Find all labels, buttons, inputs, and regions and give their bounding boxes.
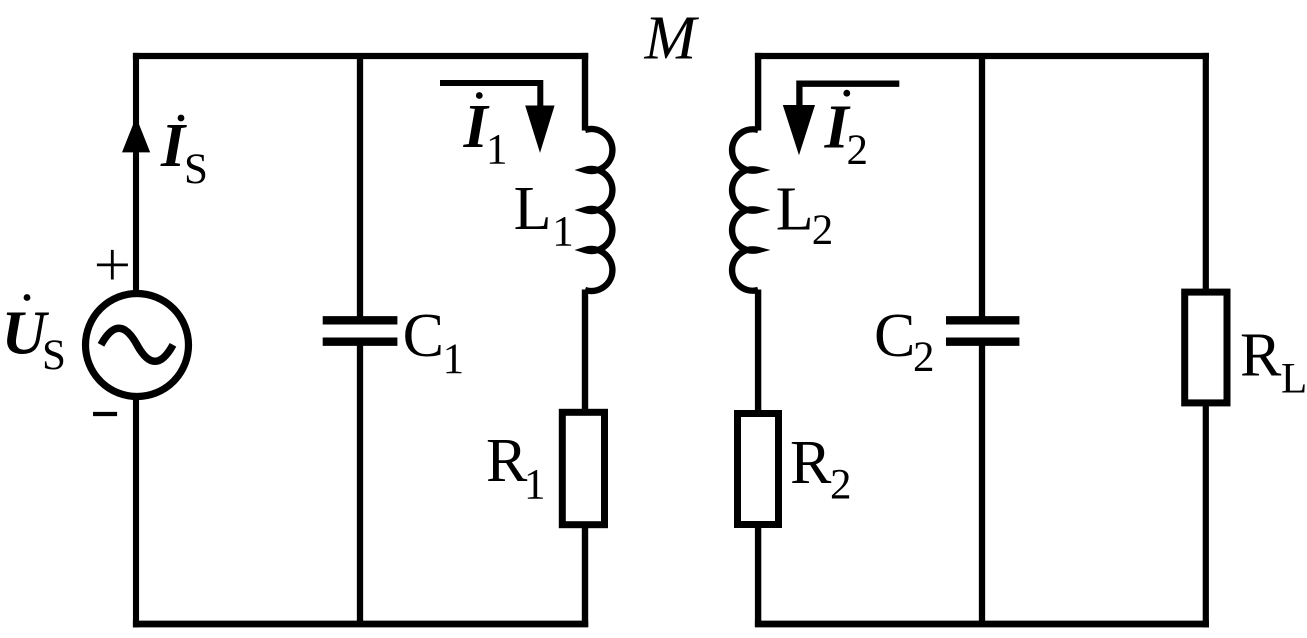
label L2 [776,176,833,255]
resistor R2 [738,414,779,525]
svg-text:2: 2 [830,462,852,509]
svg-text:1: 1 [486,127,508,174]
wire: C1 branch lower [357,345,363,627]
svg-text:S: S [184,146,208,193]
wire: below R1 [582,525,588,627]
label I2 [824,90,868,174]
resistor RL [1185,292,1227,403]
wire: right edge above RL [1203,53,1209,292]
svg-text:2: 2 [913,334,935,381]
plus polarity mark [97,250,128,280]
svg-text:2: 2 [812,207,834,254]
label L1 [514,175,574,256]
svg-text:L: L [1281,356,1307,403]
svg-text:S: S [42,332,66,379]
label R1 [486,427,546,509]
svg-text:L: L [514,175,552,243]
svg-text:2: 2 [847,127,869,174]
wire: top of L2 branch [755,53,761,131]
resistor R1 [562,412,604,524]
wire: left edge below source [133,396,139,627]
current arrow I2 (down) [783,84,900,156]
wire: left circuit top side [133,53,588,59]
wire: between L2 and R2 [755,290,761,414]
inductor L1 [585,129,612,291]
svg-text:C: C [874,302,915,370]
svg-text:1: 1 [443,336,465,383]
svg-text:1: 1 [524,462,546,509]
current arrow I1 (down) [440,83,555,153]
wire: right circuit bottom side [755,621,1209,628]
svg-text:R: R [790,429,832,497]
voltage source US [86,294,189,397]
wire: C2 branch lower [979,345,985,627]
wire: right circuit top side [755,53,1209,59]
current arrow IS (up) [122,117,150,152]
svg-text:1: 1 [552,209,574,256]
label RL [1240,321,1307,402]
wire: C2 branch upper [979,53,985,317]
svg-text:R: R [1240,321,1282,389]
capacitor C2 [946,320,1019,341]
svg-text:L: L [776,176,814,244]
svg-text:I: I [160,112,187,180]
wire: below R2 [755,525,761,627]
capacitor C1 [323,320,398,341]
wire: top of L1 branch [582,53,588,131]
wire: C1 branch upper [357,53,363,317]
wire: right edge below RL [1203,403,1209,627]
wire: left edge above source [133,53,139,296]
label US [2,294,66,379]
wire: between L1 and R1 [582,290,588,413]
svg-text:C: C [403,302,444,370]
svg-text:M: M [644,5,700,73]
inductor L2 [732,129,758,290]
minus polarity mark [93,412,117,416]
label I1 [463,92,508,173]
label R2 [790,429,852,509]
svg-text:R: R [486,427,528,495]
label C2 [874,302,935,381]
label C1 [403,302,465,383]
wire: left circuit bottom side [133,621,588,628]
label IS [160,112,208,193]
